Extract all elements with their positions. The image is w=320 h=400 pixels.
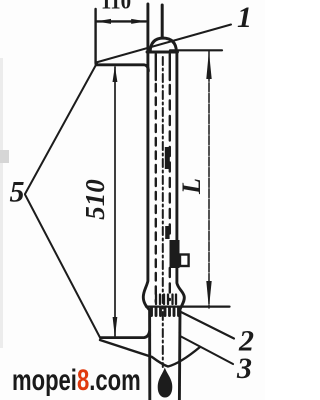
dimension 510 line — [114, 67, 116, 336]
rod stem above cap — [161, 5, 164, 38]
top clamp plate horizontal edge with corner — [96, 65, 148, 71]
dimension 510 top arrow — [113, 66, 118, 82]
dimension 110 right arrow — [131, 19, 146, 24]
dimension 110 left arrow — [96, 19, 111, 24]
dark dash blob on rod right line — [165, 147, 170, 169]
marker tab — [180, 255, 189, 267]
svg-text:110: 110 — [101, 0, 131, 14]
dimension L top arrow — [206, 51, 211, 79]
rod cap flange — [147, 51, 178, 54]
plumb drop at rod tip — [158, 368, 173, 398]
watermark mopei8.com — [12, 364, 141, 398]
oil level line — [146, 306, 230, 308]
dimension 110 line — [96, 20, 146, 22]
bottom clamp plate horizontal edge with corner — [101, 331, 150, 338]
dark dash blob above marker — [165, 226, 169, 239]
extension line top of L — [170, 49, 222, 51]
leader line to label 2 — [180, 312, 234, 339]
svg-text:1: 1 — [237, 1, 252, 34]
rod centre axis dash-dot — [162, 57, 164, 367]
extension line left of 110 — [94, 9, 96, 64]
svg-text:5: 5 — [10, 176, 25, 209]
leader line to label 3 — [181, 337, 233, 365]
dimension L line — [208, 51, 210, 308]
fork tube right wall — [177, 52, 184, 400]
leader line to label 1 (also top wedge hypotenuse) — [96, 25, 231, 63]
leader from 5 to bottom plate — [25, 195, 101, 339]
rod left side (solid then hidden dashed) — [155, 54, 157, 80]
dimension 510 bottom arrow — [113, 317, 118, 338]
oil level hatch ticks lower row — [152, 308, 179, 316]
oil level hatch ticks upper row — [156, 295, 176, 305]
extension line right of 110 / fork tube left wall — [143, 4, 150, 400]
scan artifact left edge — [0, 58, 9, 348]
rod right side (solid then hidden dashed) — [169, 54, 171, 80]
bottom clamp plate slanted edge / strap under tube — [100, 340, 200, 367]
dimension L bottom arrow — [206, 281, 211, 309]
sliding marker on rod — [170, 240, 180, 268]
rod cap dome — [150, 38, 176, 52]
svg-text:L: L — [177, 178, 206, 195]
svg-text:3: 3 — [236, 352, 252, 385]
leader from 5 to top plate — [25, 63, 97, 194]
svg-text:510: 510 — [80, 179, 110, 220]
